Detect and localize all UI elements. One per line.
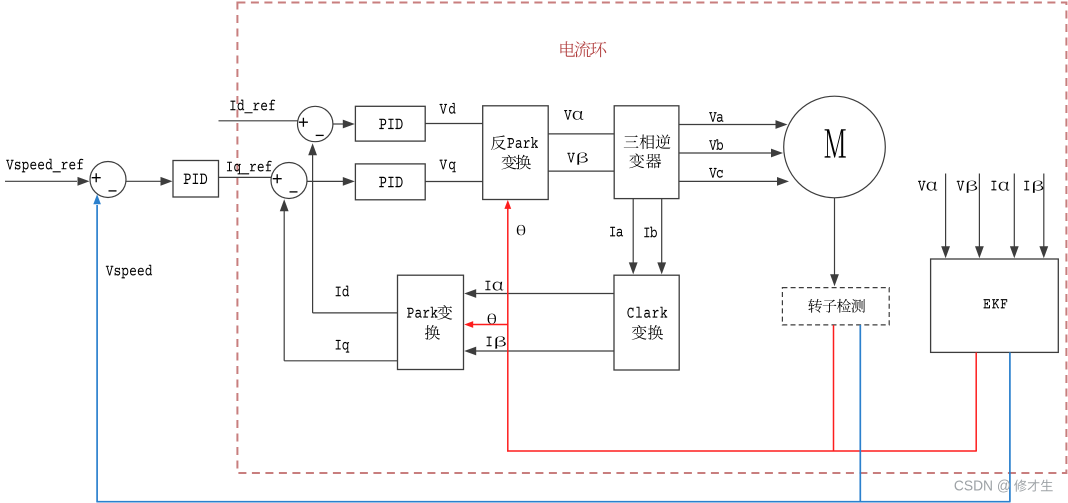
- label Iβ EKF input: [1024, 181, 1029, 191]
- text 变 of block U4 line1: [437, 305, 452, 320]
- wire Vspeed_ref input: [5, 180, 77, 182]
- arrowhead Ialpha into Park: [464, 289, 476, 298]
- label 电流环 (current loop): [560, 41, 575, 57]
- wire Iβ into EKF: [1043, 174, 1045, 248]
- blue arrowhead Vspeed into S1: [93, 194, 101, 204]
- label M of motor: [825, 129, 846, 157]
- label Iq: [336, 340, 341, 350]
- red arrowhead theta into Park: [464, 321, 473, 328]
- wire Id_ref input: [219, 120, 298, 122]
- wire Iq horizontal Park to riser: [284, 360, 397, 362]
- wire blue speed riser: [96, 205, 98, 502]
- label Vb: [709, 140, 717, 150]
- PID3 Iq current controller box: [355, 164, 425, 200]
- label PID1: [184, 174, 191, 184]
- PID1 speed controller box: [173, 161, 219, 198]
- label PID3: [379, 177, 386, 187]
- label Vd: [440, 104, 448, 114]
- wire red horizontal theta bus: [507, 450, 977, 452]
- label Id_ref: [230, 101, 235, 111]
- arrowhead into PID1: [161, 177, 173, 186]
- label Ia: [610, 227, 615, 237]
- arrowhead into summing junction S1: [78, 177, 90, 186]
- block U5 EKF observer: [931, 259, 1059, 352]
- wire S3 to PID3: [307, 180, 343, 182]
- arrowhead Vb into motor: [771, 149, 783, 158]
- wire Vc inverter to motor: [679, 180, 778, 182]
- label θ at inverse Park input: [517, 225, 525, 235]
- wire Id horizontal Park to riser: [313, 312, 398, 314]
- text 反 of block U1: [491, 135, 506, 150]
- block U4 Park transform Park变换: [398, 275, 464, 369]
- wire Valpha: [548, 133, 614, 135]
- wire Ibeta Clark to Park: [476, 350, 615, 352]
- wire S2 to PID2: [333, 123, 343, 125]
- label Iα EKF input: [991, 181, 996, 191]
- label Vα: [564, 110, 572, 120]
- wire Ialpha Clark to Park: [476, 293, 615, 295]
- label Id: [336, 287, 341, 297]
- text 变换 of block U1: [502, 155, 517, 170]
- wire motor to rotor detection: [834, 198, 836, 275]
- wire red rotor-detection drop: [833, 325, 835, 451]
- label Vβ EKF input: [957, 181, 965, 191]
- wire Va inverter to motor: [679, 124, 776, 126]
- wire blue EKF bottom drop: [1009, 352, 1011, 501]
- arrowhead Ibeta into Park: [464, 347, 476, 356]
- wire red theta branch to Park: [470, 324, 508, 326]
- block rotor-detection 转子检测 (dashed): [782, 288, 889, 325]
- arrowhead Va into motor: [776, 120, 788, 129]
- text Park of block U1: [507, 138, 514, 148]
- text Clark of block U3: [627, 308, 633, 318]
- red arrowhead theta into inverse Park: [504, 200, 511, 209]
- wire S1 to PID1: [126, 180, 161, 182]
- wire Vb inverter to motor: [679, 152, 772, 154]
- wire Ib inverter to Clark: [661, 199, 663, 263]
- label Va: [709, 112, 717, 122]
- wire red theta riser: [507, 208, 509, 452]
- label Iβ: [487, 337, 492, 347]
- PID2 Id current controller box: [355, 106, 425, 141]
- wire Iα into EKF: [1013, 174, 1015, 248]
- label Iα: [485, 281, 490, 291]
- wire Iq riser to S3: [283, 211, 285, 361]
- label PID2: [379, 119, 386, 129]
- text 转子检测: [808, 299, 822, 313]
- arrowhead Iβ into EKF: [1039, 246, 1048, 258]
- text 换 of block U4 line2: [425, 325, 440, 340]
- wire Ia inverter to Clark: [632, 199, 634, 263]
- wire Vd PID2 to inverse Park: [425, 123, 483, 125]
- summing junction S1 (speed error): [90, 162, 126, 198]
- label Vc: [709, 168, 717, 178]
- wire blue rotor-detection drop: [859, 325, 861, 502]
- arrowhead Iq into S3: [280, 199, 289, 211]
- label Vq: [440, 160, 448, 170]
- svg-text:CSDN @: CSDN @: [954, 478, 1011, 495]
- label Ib: [644, 228, 649, 238]
- arrowhead Id into S2: [308, 143, 317, 155]
- label EKF: [984, 299, 991, 308]
- watermark 修才生: [1014, 480, 1027, 492]
- wire Vα into EKF: [945, 174, 947, 248]
- wire red EKF bottom drop: [975, 352, 977, 451]
- dashed current-loop boundary box: [237, 3, 1066, 474]
- block U2 three-phase inverter 三相逆变器: [614, 106, 679, 199]
- label Vspeed_ref: [6, 160, 14, 170]
- arrowhead into rotor detection: [830, 274, 839, 286]
- text 变器 of block U2: [629, 153, 644, 168]
- arrowhead Ib into Clark: [657, 262, 666, 274]
- text 变换 of block U3: [632, 325, 647, 340]
- summing junction S3 (Iq error): [271, 163, 307, 199]
- arrowhead Ia into Clark: [629, 262, 638, 274]
- arrowhead into PID2: [343, 120, 355, 129]
- wire Vβ into EKF: [978, 174, 980, 248]
- wire Vbeta: [548, 170, 614, 172]
- motor M circle: [784, 96, 886, 198]
- wire Vq PID3 to inverse Park: [425, 181, 483, 183]
- text 三相逆 of block U2: [624, 135, 639, 147]
- arrowhead Vβ into EKF: [975, 246, 984, 258]
- wire Iq_ref PID1 to S3: [219, 176, 272, 178]
- arrowhead into PID3: [343, 177, 355, 186]
- arrowhead Vα into EKF: [941, 246, 950, 258]
- arrowhead Iα into EKF: [1010, 246, 1019, 258]
- arrowhead Vc into motor: [777, 177, 789, 186]
- wire Id riser to S2: [312, 155, 314, 313]
- label Iq_ref: [227, 162, 232, 172]
- label Vα EKF input: [918, 181, 926, 191]
- label θ at Park input: [488, 314, 496, 324]
- block U3 Clark transform Clark变换: [614, 275, 679, 370]
- label Vβ: [567, 153, 575, 163]
- summing junction S2 (Id error): [298, 106, 333, 141]
- block U1 inverse-Park transform 反Park变换: [483, 106, 549, 200]
- wire blue bottom speed bus: [97, 501, 1011, 503]
- label Vspeed: [106, 266, 114, 276]
- text Park of block U4: [407, 308, 414, 318]
